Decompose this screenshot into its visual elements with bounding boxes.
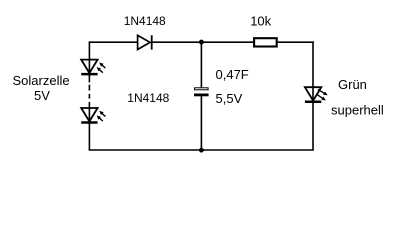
wire top rail right segment	[277, 41, 314, 43]
svg-text:1N4148: 1N4148	[124, 14, 166, 28]
svg-text:1N4148: 1N4148	[127, 91, 169, 105]
solar cell diode D2	[81, 60, 105, 75]
solar cell diode D3	[81, 108, 105, 123]
wire capacitor bottom lead	[200, 96, 202, 150]
LED D4 green	[305, 87, 328, 102]
svg-text:Solarzelle: Solarzelle	[13, 73, 70, 88]
svg-text:10k: 10k	[250, 13, 271, 28]
wire left rail lower	[88, 102, 90, 150]
svg-text:0,47F: 0,47F	[216, 67, 249, 82]
capacitor C1 top plate	[195, 88, 209, 90]
svg-text:5,5V: 5,5V	[216, 91, 243, 106]
junction dot top	[199, 40, 204, 45]
diode D1 1N4148	[138, 35, 152, 49]
wire capacitor top lead	[200, 42, 202, 87]
wire bottom rail	[89, 149, 314, 151]
junction dot bottom	[199, 148, 204, 153]
wire left rail upper	[88, 41, 90, 82]
wire top rail middle segment	[152, 41, 254, 43]
capacitor C1 bottom plate	[194, 94, 209, 97]
svg-text:5V: 5V	[34, 88, 50, 103]
wire right rail	[312, 41, 314, 150]
wire dashed segment between solar cells	[88, 85, 90, 91]
wire dashed segment 2	[88, 94, 90, 99]
svg-text:Grün: Grün	[338, 77, 367, 92]
resistor R1 10k	[254, 38, 277, 46]
svg-text:superhell: superhell	[331, 102, 384, 117]
wire top rail left segment	[89, 41, 137, 43]
